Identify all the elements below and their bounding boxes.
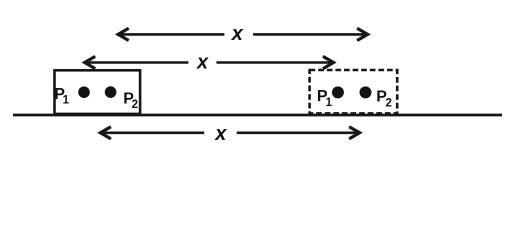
svg-text:x: x xyxy=(231,23,244,45)
svg-text:2: 2 xyxy=(132,99,138,111)
svg-text:2: 2 xyxy=(386,98,392,110)
svg-text:x: x xyxy=(214,123,227,145)
svg-text:x: x xyxy=(196,52,209,74)
svg-text:1: 1 xyxy=(326,97,333,109)
svg-text:1: 1 xyxy=(63,94,70,106)
